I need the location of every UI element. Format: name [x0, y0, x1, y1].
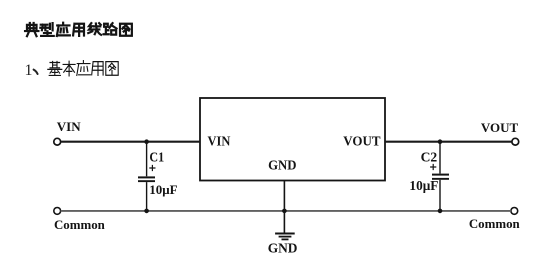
图 — [106, 62, 118, 76]
svg-text:VIN: VIN — [208, 134, 231, 149]
capacitor C1 — [138, 142, 155, 211]
svg-text:VOUT: VOUT — [343, 134, 381, 149]
svg-text:VOUT: VOUT — [481, 120, 519, 135]
线 — [88, 23, 101, 35]
terminal VIN (input, open circle) — [54, 138, 61, 145]
junction node C2 top — [438, 139, 443, 144]
polarity + for C2 — [430, 164, 436, 170]
wire VIN terminal to IC — [61, 141, 200, 143]
subtitle number 1、 — [25, 62, 38, 79]
本 — [63, 61, 75, 76]
pin label VOUT (inside IC) — [343, 134, 381, 149]
label C2 — [421, 150, 438, 165]
node label Common (left) — [54, 218, 105, 232]
junction node C1 bottom — [144, 209, 149, 214]
图 — [120, 24, 132, 36]
svg-text:GND: GND — [268, 159, 296, 174]
svg-text:10μF: 10μF — [149, 182, 177, 197]
node label VOUT — [481, 120, 519, 135]
wire bottom common rail — [61, 210, 511, 212]
title 典型应用线路图 — [25, 23, 132, 36]
pin label GND (inside IC) — [268, 159, 296, 174]
node label VIN — [57, 119, 81, 134]
路 — [104, 23, 117, 34]
subtitle 基本应用图 — [48, 61, 118, 76]
svg-text:10μF: 10μF — [409, 178, 438, 193]
应 — [57, 23, 70, 36]
junction node C2 bottom — [438, 209, 443, 214]
svg-text:1: 1 — [25, 62, 33, 79]
用 — [92, 62, 103, 76]
IC U1 box — [200, 98, 385, 181]
svg-text:VIN: VIN — [57, 119, 81, 134]
label C1 — [149, 150, 164, 165]
junction node GND / common rail — [282, 209, 287, 214]
capacitor C2 — [432, 142, 449, 211]
svg-text:C1: C1 — [149, 150, 164, 165]
基 — [48, 61, 62, 75]
svg-text:GND: GND — [268, 240, 298, 255]
典 — [25, 23, 38, 36]
label GND (below ground symbol) — [268, 240, 298, 255]
型 — [40, 23, 53, 36]
应 — [77, 61, 91, 76]
terminal Common right (open circle) — [511, 208, 518, 215]
node label Common (right) — [469, 217, 520, 231]
wire GND stub from IC — [283, 181, 285, 233]
polarity + for C1 — [149, 165, 155, 171]
pin label VIN (inside IC) — [208, 134, 231, 149]
wire IC to VOUT terminal — [385, 141, 512, 143]
value 10μF (C1) — [149, 182, 177, 197]
svg-text:C2: C2 — [421, 150, 438, 165]
ground symbol — [275, 234, 295, 240]
junction node C1 top — [144, 139, 149, 144]
value 10μF (C2) — [409, 178, 438, 193]
terminal Common left (open circle) — [54, 208, 61, 215]
svg-text:Common: Common — [469, 217, 520, 231]
terminal VOUT (output, open circle) — [512, 138, 519, 145]
svg-text:Common: Common — [54, 218, 105, 232]
用 — [73, 24, 84, 36]
